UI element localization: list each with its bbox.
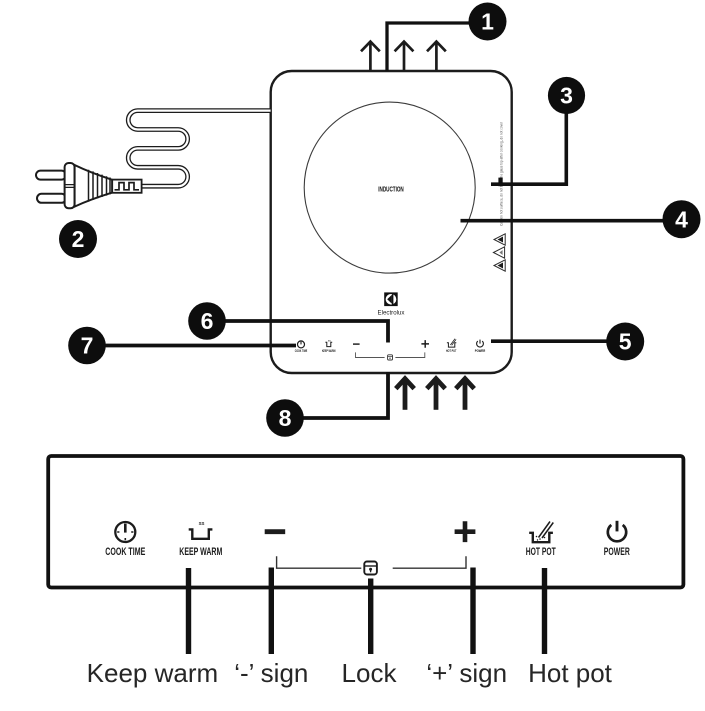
callout 5 leader: [491, 339, 607, 343]
svg-text:8: 8: [279, 405, 292, 431]
mini keep warm icon: [325, 342, 332, 346]
svg-text:POWER: POWER: [604, 546, 630, 558]
plug zigzag: [115, 183, 140, 190]
big lock bracket: [277, 556, 466, 568]
plug cone ribs: [89, 170, 111, 202]
callout 4 leader: [461, 219, 664, 223]
cooking zone circle: [304, 102, 475, 273]
warning triangle 3: [494, 260, 505, 271]
warning triangle 2: [493, 247, 504, 258]
callout 3 leader: [491, 113, 566, 184]
mini hot pot icon: [447, 339, 456, 347]
leader line lock: [368, 579, 373, 655]
big plus: [455, 521, 476, 542]
mini minus: [353, 343, 360, 345]
svg-text:KEEP WARM: KEEP WARM: [322, 349, 336, 353]
svg-text:2: 2: [72, 226, 85, 252]
svg-text:5: 5: [619, 329, 632, 355]
mini lock bracket: [356, 352, 425, 357]
svg-text:KEEP WARM: KEEP WARM: [179, 546, 222, 558]
big lock icon: [364, 562, 377, 575]
plug plate band: [65, 185, 75, 188]
svg-text:POWER: POWER: [475, 349, 486, 353]
leader line keep warm: [186, 568, 191, 654]
callout 4: [663, 200, 701, 238]
cooktop body: [271, 71, 512, 373]
mini lock icon: [388, 355, 393, 360]
svg-text:6: 6: [201, 308, 214, 334]
svg-text:HOT POT: HOT POT: [526, 546, 556, 558]
leader line minus: [269, 568, 274, 655]
callout 6: [188, 302, 226, 340]
svg-text:‘+’ sign: ‘+’ sign: [426, 658, 507, 688]
svg-text:4: 4: [675, 206, 688, 232]
svg-text:INDUCTION: INDUCTION: [378, 184, 404, 193]
plug cone body: [75, 165, 113, 207]
big power icon: [608, 521, 626, 542]
svg-text:Caution hot surface, do not to: Caution hot surface, do not touch the gl…: [499, 121, 503, 226]
top airflow arrow 2: [395, 42, 414, 71]
callout 1: [469, 3, 507, 41]
bottom airflow arrow 1: [396, 379, 414, 410]
svg-text:3: 3: [560, 83, 573, 109]
plug face plate: [65, 163, 75, 208]
mini clock icon: [298, 341, 305, 348]
svg-text:1: 1: [481, 9, 494, 35]
bottom airflow arrow 3: [456, 379, 474, 410]
leader line plus: [470, 568, 475, 655]
svg-text:COOK TIME: COOK TIME: [295, 349, 308, 353]
big keep warm icon: [189, 529, 213, 538]
plug strain relief: [112, 180, 141, 193]
big hot pot icon: [529, 522, 553, 543]
callout 2: [59, 220, 97, 258]
svg-text:Lock: Lock: [342, 658, 398, 688]
svg-text:SS: SS: [199, 521, 205, 526]
big minus: [265, 529, 286, 534]
warning triangle 1: [494, 234, 505, 245]
hot pot dots: [536, 536, 546, 541]
callout 5: [606, 323, 644, 361]
callout 6 leader: [225, 321, 388, 343]
callout 8: [266, 399, 304, 437]
mini plus: [421, 340, 429, 348]
svg-text:Electrolux: Electrolux: [378, 310, 405, 316]
svg-text:COOK TIME: COOK TIME: [105, 546, 145, 558]
callout 3: [548, 77, 585, 114]
callout 7 leader: [105, 344, 296, 348]
svg-text:Keep warm: Keep warm: [87, 658, 219, 688]
svg-text:Hot pot: Hot pot: [528, 658, 613, 688]
Electrolux logo badge: [384, 292, 398, 306]
bold word blob in vertical text: [498, 178, 502, 187]
callout 1 leader: [387, 23, 469, 71]
leader line hot pot: [542, 568, 547, 654]
power cord: [128, 111, 270, 187]
plug prong bottom: [37, 194, 66, 203]
callout 8 leader: [303, 372, 388, 418]
plug prong top: [36, 171, 66, 180]
callout 7: [68, 327, 106, 365]
svg-text:HOT POT: HOT POT: [446, 349, 457, 353]
control panel detail box: [48, 456, 683, 588]
mini power icon: [477, 340, 484, 347]
svg-text:7: 7: [81, 333, 94, 359]
top airflow arrow 1: [361, 42, 380, 71]
svg-text:‘-’ sign: ‘-’ sign: [234, 658, 308, 688]
top airflow arrow 3: [427, 42, 446, 71]
bottom airflow arrow 2: [427, 379, 445, 410]
big clock icon: [115, 522, 135, 542]
